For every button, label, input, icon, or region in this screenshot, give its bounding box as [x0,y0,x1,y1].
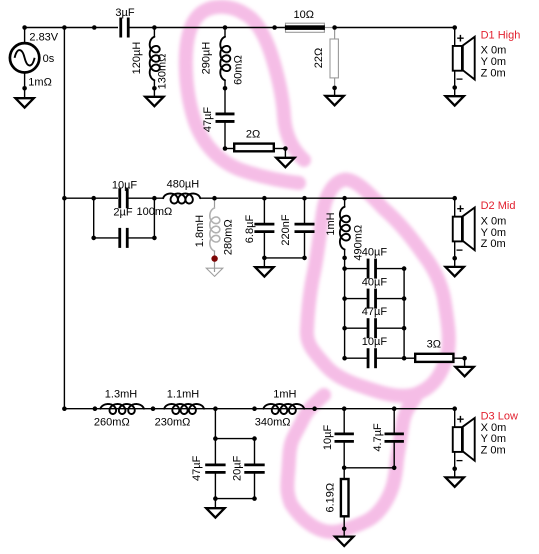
node dot parallel caps right [152,196,157,201]
node dot D3 bottom [452,466,457,471]
svg-text:1mH: 1mH [325,212,337,235]
inductor 290uH coil [220,37,230,80]
node dot 290uH bottom [223,86,228,91]
svg-text:Z 0m: Z 0m [481,238,506,250]
wire mid rail cap to coil [127,197,163,199]
wire 47uF to 2R node [224,122,226,148]
wire 120uH bottom lead [153,80,155,96]
node dot ladder row4 left [342,356,347,361]
svg-text:+: + [457,412,465,427]
wire to ground bottom caps [214,499,216,509]
node dot before 1.3mH [93,406,98,411]
wire 120uH top lead [153,28,155,38]
node dot 2uF left [91,236,96,241]
ground under 6.8uF [255,267,273,276]
node dot 1.8mH top [212,196,217,201]
wire 220nF top lead [304,198,306,223]
node dot 20uF top [252,436,257,441]
node dot ladder row3 right [402,326,407,331]
node dot ladder row2 right [402,296,407,301]
ground after 2R [276,158,294,167]
inductor 1mH bottom coil [263,404,304,414]
wire grey 1.8mH bottom lead [214,251,216,272]
wire 290uH to 47uF [224,80,226,113]
wire D1 negative lead [454,71,456,88]
svg-text:1.1mH: 1.1mH [167,388,199,400]
wire 6.8uF-220nF bottom join [264,257,304,259]
wire 6.19R to ground [343,518,345,537]
wire 290uH top lead [224,28,226,38]
inductor 1.8mH coil (disabled) [210,208,220,251]
svg-text:22Ω: 22Ω [313,48,325,68]
node dot D3 top [452,406,457,411]
node dot join right [392,466,397,471]
capacitor 47µF row3 [367,318,370,338]
node dot 220nF top [302,196,307,201]
svg-text:480µH: 480µH [167,178,200,190]
ground under bottom caps [206,508,224,517]
svg-text:47µF: 47µF [362,306,388,318]
ground under 6.19R [335,537,353,546]
node dot ladder row4 right [402,356,407,361]
svg-text:Z 0m: Z 0m [481,68,506,80]
svg-text:47µF: 47µF [202,107,214,133]
svg-text:290µH: 290µH [201,42,213,75]
wire top rail to D1 [335,27,455,29]
wire 2uF left drop [93,198,95,238]
node dot 4.7uF branch [392,406,397,411]
wire 3R to ground node [453,357,464,359]
svg-text:D1 High: D1 High [481,29,521,41]
node dot ladder row2 left [342,296,347,301]
wire top rail after 3uF [128,27,325,29]
svg-text:6.19Ω: 6.19Ω [324,483,336,513]
node dot ladder top [342,256,347,261]
node dot caps bottom left [213,496,218,501]
capacitor 2uF [118,228,121,248]
wire 2R to ground node [274,148,285,150]
wire grey 22R bottom lead [334,78,336,88]
svg-text:10µF: 10µF [322,424,334,450]
wire ladder row4 left lead [345,357,368,359]
wire ladder row3 left lead [345,327,368,329]
svg-text:D3 Low: D3 Low [481,411,518,423]
resistor 2R [234,144,274,152]
wire 10uF branch drop [343,409,345,433]
wire 20uF top lead [254,439,256,464]
node dot 120uH top [152,25,157,30]
svg-text:2µF: 2µF [113,206,132,218]
node dot 3R right [462,356,467,361]
wire caps bottom join [215,498,254,500]
wire mid rail left [64,197,118,199]
wire grey 22R top lead [334,28,336,40]
svg-text:X 0m: X 0m [481,422,507,434]
node dot source bottom [22,86,27,91]
node dot 2R right [283,146,288,151]
wire ladder row2 right lead [376,298,405,300]
svg-text:130mΩ: 130mΩ [157,54,169,90]
wire down to ground 2R [284,149,286,158]
wire grey segment 10R to junction [325,27,335,29]
wire 4.7uF bottom lead [393,442,395,468]
svg-text:Z 0m: Z 0m [481,445,506,457]
svg-text:−: − [456,453,463,467]
node junction dot on top rail at bus tap [62,25,67,30]
node dot after 1mH bottom [312,406,317,411]
ground after 3R [455,367,473,376]
capacitor 6.8uF [254,223,274,226]
wire source top lead [24,28,26,43]
node dot caps branch [213,406,218,411]
ground under D3 [446,477,464,486]
wire grey 1.8mH top lead [214,198,216,208]
svg-text:1mΩ: 1mΩ [28,77,52,89]
wire 22R to ground [334,88,336,96]
wire 2uF row right [127,237,154,239]
wire ladder row1 right lead [376,268,405,270]
wire source bottom lead [24,73,26,88]
wire 6.8uF top lead [263,198,265,223]
wire D1 positive lead [454,28,456,46]
wire bottom rail [64,408,454,410]
wire ladder row1 left lead [345,268,368,270]
wire ladder row3 right lead [376,327,405,329]
capacitor 47uF top section [216,113,235,116]
svg-text:120µH: 120µH [131,42,143,75]
wire 220nF bottom lead [304,233,306,258]
svg-text:10µF: 10µF [362,336,388,348]
voltage source V1 2.83V circle with sine [10,43,39,72]
svg-text:1.3mH: 1.3mH [105,388,137,400]
node dot parallel caps left [91,196,96,201]
svg-text:10µF: 10µF [112,179,138,191]
ground under D1 [446,96,464,105]
wire D2 positive lead [454,198,456,216]
wire 47uF top lead [214,439,216,464]
wire caps branch drop [214,409,216,439]
svg-text:X 0m: X 0m [481,45,507,57]
ground under 22R [325,96,343,105]
node dot 47uF bottom top-left [213,436,218,441]
capacitor 20uF [244,463,264,466]
capacitor 40µF row1 [367,259,370,279]
capacitor 10µF row4 [367,348,370,368]
node dot 120uH bottom [152,86,157,91]
wire 1mH mid top lead [344,198,346,207]
node dot caps bottom right [252,496,257,501]
svg-text:−: − [456,243,463,257]
capacitor 220nF [295,223,315,226]
svg-text:0s: 0s [43,53,55,65]
wire 6.8uF bottom lead [263,233,265,258]
node red dot 1.8mH bottom [211,255,217,261]
speaker driver D3 symbol [453,427,462,452]
speaker driver D1 symbol [453,46,462,71]
svg-text:2Ω: 2Ω [246,128,260,140]
svg-text:1mH: 1mH [273,388,296,400]
svg-text:2.83V: 2.83V [29,32,58,44]
wire into 2R [225,148,234,150]
node dot above ground 6.19R [342,527,347,532]
capacitor 47uF bottom [205,463,225,466]
svg-text:+: + [457,30,465,45]
wire D3 to ground [454,469,456,478]
node dot ladder row1 left [342,266,347,271]
capacitor 4.7uF [385,432,404,435]
svg-text:280mΩ: 280mΩ [223,219,235,255]
wire to ground 6.8uF [263,258,265,267]
node dot D2 bottom [452,256,457,261]
short bar across 10R [285,25,325,30]
wire 4.7uF branch drop [393,409,395,433]
svg-text:10Ω: 10Ω [293,9,313,21]
inductor 1.3mH coil [100,404,143,414]
wire D1 to ground [454,88,456,97]
node dot 6.8uF bottom [262,256,267,261]
wire 47uF bottom lead [214,473,216,498]
inductor 480uH coil [163,194,200,204]
ground under D2 [446,267,464,276]
node dot after 10R [332,25,337,30]
capacitor 3uF [119,18,122,38]
svg-text:20µF: 20µF [231,455,243,481]
inductor 1mH mid coil [340,207,350,250]
node dot D1 top [452,25,457,30]
wire to ground under source [24,88,26,98]
svg-text:260mΩ: 260mΩ [94,417,130,429]
svg-text:+: + [457,201,465,216]
node dot mid rail at bus [62,196,67,201]
svg-text:4.7µF: 4.7µF [372,423,384,452]
wire 2uF row left [94,237,120,239]
inductor 120uH coil [150,37,160,80]
wire D3 positive lead [454,409,456,427]
svg-text:6.8µF: 6.8µF [244,215,256,244]
svg-text:230mΩ: 230mΩ [155,417,191,429]
node dot before 1mH bottom [252,406,257,411]
svg-text:220nF: 220nF [280,214,292,245]
svg-text:X 0m: X 0m [481,215,507,227]
svg-text:−: − [456,72,463,86]
resistor 3R [415,354,453,362]
svg-text:40µF: 40µF [362,247,388,259]
wire caps top join [215,438,254,440]
wire row4 to 3R [404,357,415,359]
speaker driver D2 symbol [453,217,462,242]
node dot ladder row3 left [342,326,347,331]
node dot 2R left [223,146,228,151]
svg-text:100mΩ: 100mΩ [137,206,173,218]
ground under source [15,98,33,107]
svg-text:1.8mH: 1.8mH [194,215,206,247]
wire 20uF bottom lead [254,473,256,498]
node dot between 1.3mH 1.1mH [151,406,156,411]
resistor 22R body (open) [330,39,338,78]
svg-text:Y 0m: Y 0m [481,433,506,445]
resistor 10R body (bypassed) [286,23,325,32]
wire 2uF right drop [153,198,155,238]
svg-text:3µF: 3µF [115,7,134,19]
node dot 10uF branch [342,406,347,411]
ground under 120uH [145,97,163,106]
svg-text:3Ω: 3Ω [427,338,441,350]
wire ladder right rail [403,269,405,359]
wire left bus vertical [63,28,65,409]
wire join to 6.19R [343,468,345,479]
wire bottom caps join [344,467,394,469]
capacitor 10uF bottom [335,432,354,435]
node dot 2uF right [152,236,157,241]
svg-text:340mΩ: 340mΩ [255,416,291,428]
wire ladder row2 left lead [345,298,368,300]
node junction dot at source top [22,25,27,30]
capacitor 40µF row2 [367,289,370,309]
node dot before 10R [272,25,277,30]
wire D2 negative lead [454,241,456,258]
node dot 1mH mid top [342,196,347,201]
node dot 290uH top [223,25,228,30]
node dot ladder row1 right [402,266,407,271]
node junction dot on top rail [92,25,97,30]
node dot D2 top [452,196,457,201]
svg-text:40µF: 40µF [362,277,388,289]
node dot D1 bottom [452,85,457,90]
node dot 22R bottom [332,86,337,91]
svg-text:Y 0m: Y 0m [481,56,506,68]
capacitor 10uF mid [118,188,121,208]
wire top rail segment from source to 3uF [25,27,118,29]
svg-text:Y 0m: Y 0m [481,227,506,239]
node dot 220nF bottom [302,256,307,261]
wire mid rail to speaker [200,197,455,199]
node dot bottom rail at bus corner [62,406,67,411]
highlighter stroke around mid cap-bank and bottom section [287,180,448,532]
wire 10uF bottom lead [343,442,345,468]
wire D3 negative lead [454,452,456,469]
resistor 6.19R [341,479,349,516]
wire 1mH to ladder [344,249,346,358]
wire D2 to ground [454,258,456,267]
ground grey under 1.8mH [206,268,223,276]
svg-text:60mΩ: 60mΩ [233,55,245,85]
svg-text:47µF: 47µF [191,455,203,481]
wire ladder row4 right lead [376,357,405,359]
wire 3R ground drop [464,358,466,367]
inductor 1.1mH coil [164,404,204,414]
node dot 6.8uF top [262,196,267,201]
svg-text:D2 Mid: D2 Mid [481,200,516,212]
node dot join left [342,466,347,471]
highlighter stroke around 290uH branch [186,7,304,183]
